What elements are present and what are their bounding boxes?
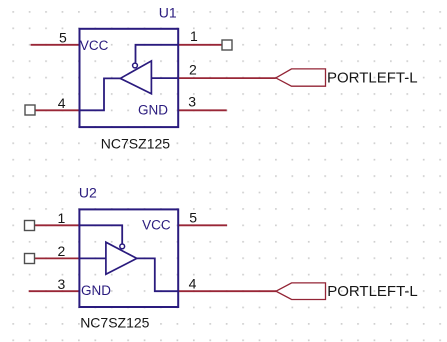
svg-text:5: 5 <box>189 209 197 225</box>
wire pin 4 of U1 <box>35 109 80 111</box>
U2 internal enable wire <box>79 225 122 243</box>
svg-text:PORTLEFT-L: PORTLEFT-L <box>327 70 418 87</box>
wire pin 5 of U1 <box>31 44 80 46</box>
svg-text:NC7SZ125: NC7SZ125 <box>80 315 149 331</box>
wire pin 4 of U2 to port <box>178 290 276 292</box>
wire pin 1 of U1 <box>178 44 222 46</box>
svg-text:GND: GND <box>138 103 168 118</box>
U1 internal enable wire <box>136 45 179 63</box>
IC U2 body <box>79 209 178 307</box>
svg-text:2: 2 <box>58 243 66 259</box>
svg-text:GND: GND <box>81 283 111 298</box>
svg-text:PORTLEFT-L: PORTLEFT-L <box>327 283 418 300</box>
enable bubble U2 <box>120 244 125 249</box>
svg-text:3: 3 <box>188 94 196 110</box>
terminal square on pin 4 of U1 <box>25 105 35 115</box>
svg-text:VCC: VCC <box>80 38 109 53</box>
svg-text:4: 4 <box>58 95 66 111</box>
wire pin 2 of U1 to port <box>178 77 276 79</box>
wire pin 5 of U2 <box>178 224 227 226</box>
svg-text:1: 1 <box>58 210 66 226</box>
svg-text:U1: U1 <box>159 5 177 21</box>
svg-text:U2: U2 <box>79 185 97 201</box>
port PORTLEFT-L lower <box>276 283 326 300</box>
svg-text:1: 1 <box>190 28 198 44</box>
U2 internal input wire <box>79 257 106 259</box>
wire pin 3 of U1 <box>178 109 227 111</box>
port PORTLEFT-L upper <box>276 69 326 86</box>
wire pin 3 of U2 <box>29 290 80 292</box>
terminal square on pin 1 of U2 <box>25 221 35 231</box>
wire pin 1 of U2 <box>35 224 80 226</box>
svg-text:5: 5 <box>59 29 67 45</box>
wire pin 2 of U2 <box>35 257 80 259</box>
enable bubble U1 <box>133 63 138 68</box>
U1 internal input wire <box>151 77 178 79</box>
svg-text:2: 2 <box>189 62 197 78</box>
IC U1 body <box>80 29 179 127</box>
svg-text:4: 4 <box>189 275 197 291</box>
terminal square on pin 2 of U2 <box>25 254 35 264</box>
svg-text:NC7SZ125: NC7SZ125 <box>101 136 170 152</box>
U2 internal output wire <box>137 258 178 291</box>
terminal square on pin 1 of U1 <box>222 40 232 50</box>
svg-text:3: 3 <box>58 276 66 292</box>
svg-text:VCC: VCC <box>142 217 171 232</box>
buffer gate triangle U1 <box>120 61 151 94</box>
buffer gate triangle U2 <box>106 242 137 274</box>
U1 internal output wire <box>80 78 121 110</box>
